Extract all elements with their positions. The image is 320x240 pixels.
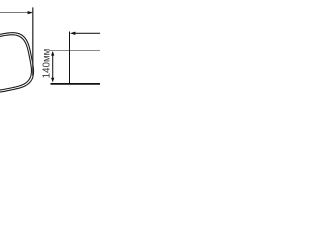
svg-text:140мм: 140мм [41, 48, 52, 78]
